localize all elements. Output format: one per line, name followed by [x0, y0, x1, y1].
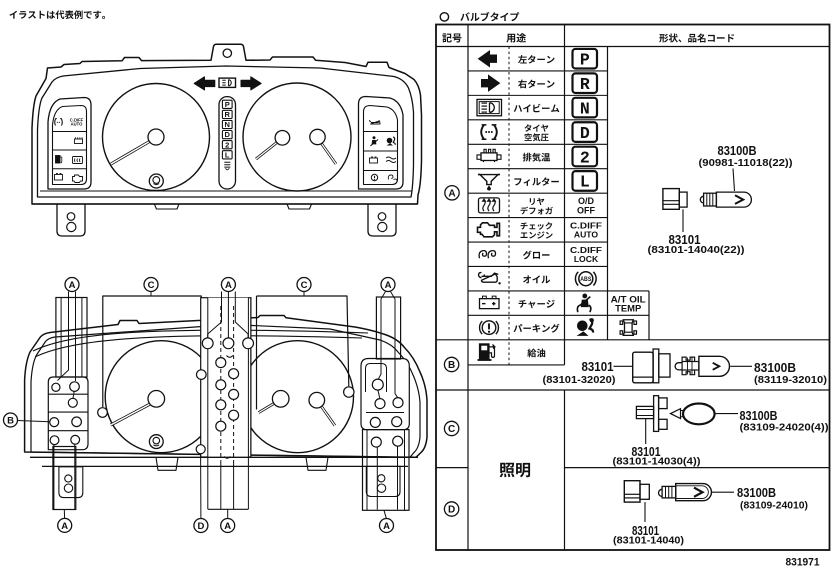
- right gauge dial: [243, 83, 351, 191]
- note イラストは代表例です。: [9, 10, 105, 19]
- icon high beam: [477, 99, 502, 115]
- svg-text:P: P: [580, 51, 590, 70]
- icon filter: [480, 175, 498, 185]
- header 用途: [506, 33, 526, 43]
- C band 1: [103, 296, 202, 407]
- table: bulb type table: [436, 25, 830, 551]
- svg-text:A: A: [225, 280, 232, 291]
- usage text 4a: [525, 124, 549, 131]
- leader r1 to r2: [378, 390, 380, 398]
- panel icon at temp: [386, 157, 396, 163]
- rear right panel inner box: [366, 364, 387, 393]
- right turn arrow: [241, 77, 261, 90]
- windshield swoosh line 1: [33, 330, 368, 351]
- svg-text:D: D: [224, 130, 230, 139]
- usage text 6: [514, 177, 558, 186]
- callout A6: [380, 519, 394, 533]
- right gauge hub 2: [319, 140, 336, 164]
- svg-text:AUTO: AUTO: [71, 122, 84, 127]
- callout B: [4, 413, 18, 427]
- leader A5: [227, 509, 229, 518]
- rear body outer contour: [25, 316, 427, 458]
- leader from B: [18, 421, 50, 422]
- rear left panel: [48, 377, 88, 450]
- bulb hole C2: [344, 387, 354, 397]
- icon parking brake: [482, 321, 496, 335]
- callout C2: [297, 278, 311, 292]
- center band: [201, 298, 251, 457]
- svg-text:2: 2: [225, 140, 229, 149]
- rear bottom line 2: [42, 465, 408, 467]
- rear bottom tab left: [156, 457, 178, 470]
- right gauge hub 1: [256, 140, 280, 159]
- panel icon seatbelt: [373, 136, 376, 139]
- rear right gauge: [242, 341, 354, 453]
- instrument cluster front view: [32, 44, 422, 236]
- usage text 4b: [525, 133, 549, 141]
- icon charge battery: [480, 299, 500, 309]
- panel icon glow: [388, 175, 397, 182]
- C band 2: [257, 296, 349, 386]
- leaders to bottom A4: [53, 445, 55, 510]
- svg-text:D: D: [448, 505, 455, 516]
- symbol B: [444, 357, 458, 371]
- symbol C: [444, 421, 458, 435]
- leaders from A3: [378, 292, 385, 380]
- icon tire pressure: [481, 125, 484, 139]
- header 記号: [442, 33, 461, 42]
- svg-text:N: N: [580, 99, 590, 118]
- rear bottom line 1: [30, 456, 418, 458]
- svg-text:C: C: [448, 424, 455, 435]
- svg-text:C: C: [148, 280, 155, 291]
- socket B: [633, 352, 653, 383]
- svg-text:L: L: [580, 173, 590, 192]
- usage text 8a: [521, 222, 553, 230]
- callout A1: [65, 278, 79, 292]
- svg-text:D: D: [580, 124, 590, 143]
- symbol D: [444, 502, 458, 516]
- bulb A: [700, 196, 703, 203]
- bulb D: [659, 489, 663, 496]
- usage text 5: [523, 153, 550, 162]
- svg-text:83101: 83101: [582, 359, 614, 374]
- leaders to bottom A6: [376, 447, 378, 510]
- panel icon exhaust: [75, 139, 83, 144]
- panel icon tire: [55, 119, 63, 126]
- usage text 7b: [521, 207, 553, 215]
- usage text 10: [523, 275, 550, 283]
- gear letter box 2: [573, 147, 598, 167]
- usage text 12: [514, 324, 560, 333]
- svg-text:ABS: ABS: [580, 276, 591, 283]
- svg-text:A: A: [61, 521, 68, 532]
- svg-text:R: R: [580, 75, 590, 94]
- svg-text:2: 2: [580, 148, 590, 167]
- bulb C body: [683, 404, 715, 425]
- svg-text:(83101-32020): (83101-32020): [543, 374, 616, 386]
- A band left lower: [53, 447, 76, 510]
- panel icon battery2: [370, 158, 378, 163]
- svg-text:B: B: [7, 415, 14, 426]
- svg-text:83100B: 83100B: [754, 360, 796, 375]
- icon oil: [482, 273, 499, 282]
- svg-text:AUTO: AUTO: [574, 229, 599, 239]
- usage text 8b: [521, 231, 553, 238]
- cluster body inner contour: [38, 66, 414, 197]
- svg-text:(83119-32010): (83119-32010): [754, 374, 827, 386]
- svg-text:(83101-14040): (83101-14040): [613, 535, 684, 547]
- panel icon fuel: [56, 156, 61, 164]
- top tab hole: [223, 49, 231, 57]
- rear bottom tab right: [306, 457, 328, 470]
- svg-text:83100B: 83100B: [718, 143, 757, 158]
- high beam indicator box: [219, 78, 236, 87]
- svg-text:L: L: [225, 150, 230, 159]
- leaders from A2: [221, 292, 223, 323]
- bottom notch right: [287, 204, 312, 209]
- bottom notch left: [154, 204, 179, 209]
- svg-text:(83101-14030(4)): (83101-14030(4)): [613, 456, 701, 468]
- leader socket A: [682, 209, 684, 232]
- panel icon defog: [73, 157, 83, 164]
- leaders from callout A1: [58, 292, 69, 381]
- A band left: [56, 298, 87, 378]
- left lower tab: [59, 467, 83, 498]
- usage 給油: [527, 349, 545, 358]
- icon seatbelt: [582, 294, 587, 299]
- usage text 3: [514, 104, 560, 112]
- icon fuel: [480, 344, 490, 360]
- icon exhaust temp: [481, 153, 497, 161]
- icon right turn arrow: [482, 75, 500, 91]
- mounting tab bottom-right: [368, 204, 396, 236]
- bulb hole C1 left: [98, 408, 108, 418]
- leader C2: [303, 292, 305, 297]
- svg-text:B: B: [448, 360, 455, 371]
- mounting tab bottom-left: [57, 204, 85, 236]
- panel icon oil: [370, 120, 380, 124]
- icon check engine: [478, 223, 500, 237]
- svg-text:(90981-11018(22)): (90981-11018(22)): [699, 157, 793, 169]
- callout A2: [221, 278, 235, 292]
- left needle: [111, 140, 152, 164]
- bulb hole C1 right: [197, 370, 207, 380]
- usage text 9: [523, 251, 550, 260]
- svg-text:R: R: [224, 110, 230, 119]
- instrument cluster rear view: [4, 278, 428, 533]
- gear letter box N: [573, 98, 598, 118]
- gear indicator strip: [219, 97, 236, 189]
- panel icon brake: [371, 174, 377, 180]
- icon airbag: [577, 320, 588, 331]
- usage text 1: [518, 55, 555, 64]
- left gauge hub: [148, 129, 164, 145]
- svg-text:A: A: [385, 280, 392, 291]
- callout A4: [58, 518, 72, 532]
- 照明 label: [500, 463, 531, 478]
- svg-text:LOCK: LOCK: [574, 254, 599, 264]
- svg-text:(83109-24010): (83109-24010): [740, 500, 808, 512]
- svg-text:OFF: OFF: [577, 205, 595, 215]
- bulb holes center chain: [216, 358, 226, 368]
- left turn arrow: [194, 77, 215, 90]
- windshield swoosh line 2: [35, 336, 362, 357]
- callout A5: [221, 519, 235, 533]
- panel icon check engine: [73, 175, 83, 183]
- bottom lip line: [32, 203, 418, 205]
- bulb holes left: [52, 383, 60, 391]
- trip knob: [149, 174, 163, 188]
- left gauge dial: [103, 84, 210, 191]
- leader D: [200, 454, 202, 519]
- symbol A: [445, 186, 459, 200]
- svg-text:(83101-14040(22)): (83101-14040(22)): [648, 244, 745, 256]
- gear letter box D: [573, 122, 598, 142]
- svg-text:(83109-24020(4)): (83109-24020(4)): [740, 422, 829, 434]
- jump arc center band: [224, 457, 230, 459]
- rear left gauge: [105, 341, 217, 453]
- svg-text:D: D: [197, 521, 204, 532]
- icon left turn arrow: [479, 51, 497, 67]
- panel icon airbag: [387, 138, 393, 144]
- icon ABS: [579, 272, 593, 286]
- svg-text:83100B: 83100B: [737, 485, 776, 500]
- bulb holes right: [372, 379, 383, 390]
- A band right lower: [363, 430, 410, 511]
- svg-text:A: A: [383, 521, 390, 532]
- callout C1: [144, 278, 158, 292]
- svg-text:C: C: [301, 280, 308, 291]
- gear letter box R: [573, 73, 598, 93]
- usage text 11: [519, 300, 555, 309]
- right icon panel: [359, 97, 404, 190]
- svg-text:TEMP: TEMP: [615, 303, 641, 314]
- svg-text:A: A: [448, 188, 455, 199]
- usage text 7a: [530, 198, 545, 205]
- panel icon battery: [55, 175, 63, 181]
- icon vehicle: [623, 320, 633, 336]
- bulb B: [675, 363, 682, 370]
- icon rear defogger: [479, 198, 500, 213]
- header 形状、品名コード: [659, 34, 734, 43]
- callout A3: [381, 278, 395, 292]
- rear body inner contour: [31, 325, 420, 458]
- title バルブタイプ: [440, 13, 448, 21]
- leader to bulb A: [733, 169, 735, 192]
- left icon panel: [48, 98, 91, 190]
- front face bottom line: [40, 190, 412, 192]
- gear strip bottom icon: [224, 162, 230, 167]
- svg-text:P: P: [225, 100, 230, 109]
- rear right panel: [361, 359, 409, 430]
- bulb holes center top row: [202, 338, 213, 349]
- svg-text:831971: 831971: [786, 557, 820, 569]
- leader C1: [150, 292, 152, 297]
- socket C: [636, 406, 653, 418]
- callout D2: [194, 519, 208, 533]
- bulb C: [671, 409, 681, 419]
- svg-text:A: A: [224, 521, 231, 532]
- bulb hole D: [196, 445, 205, 454]
- icon glow plug: [479, 251, 486, 259]
- gear letter box P: [573, 49, 598, 69]
- right lower tab: [366, 466, 400, 496]
- socket D: [624, 481, 640, 502]
- usage text 2: [518, 80, 555, 89]
- svg-text:N: N: [224, 120, 229, 129]
- A band right: [376, 297, 400, 359]
- gear letter box L: [573, 171, 598, 191]
- svg-text:A: A: [69, 280, 76, 291]
- cluster body outer contour: [32, 44, 422, 204]
- socket A 83101: [663, 189, 679, 210]
